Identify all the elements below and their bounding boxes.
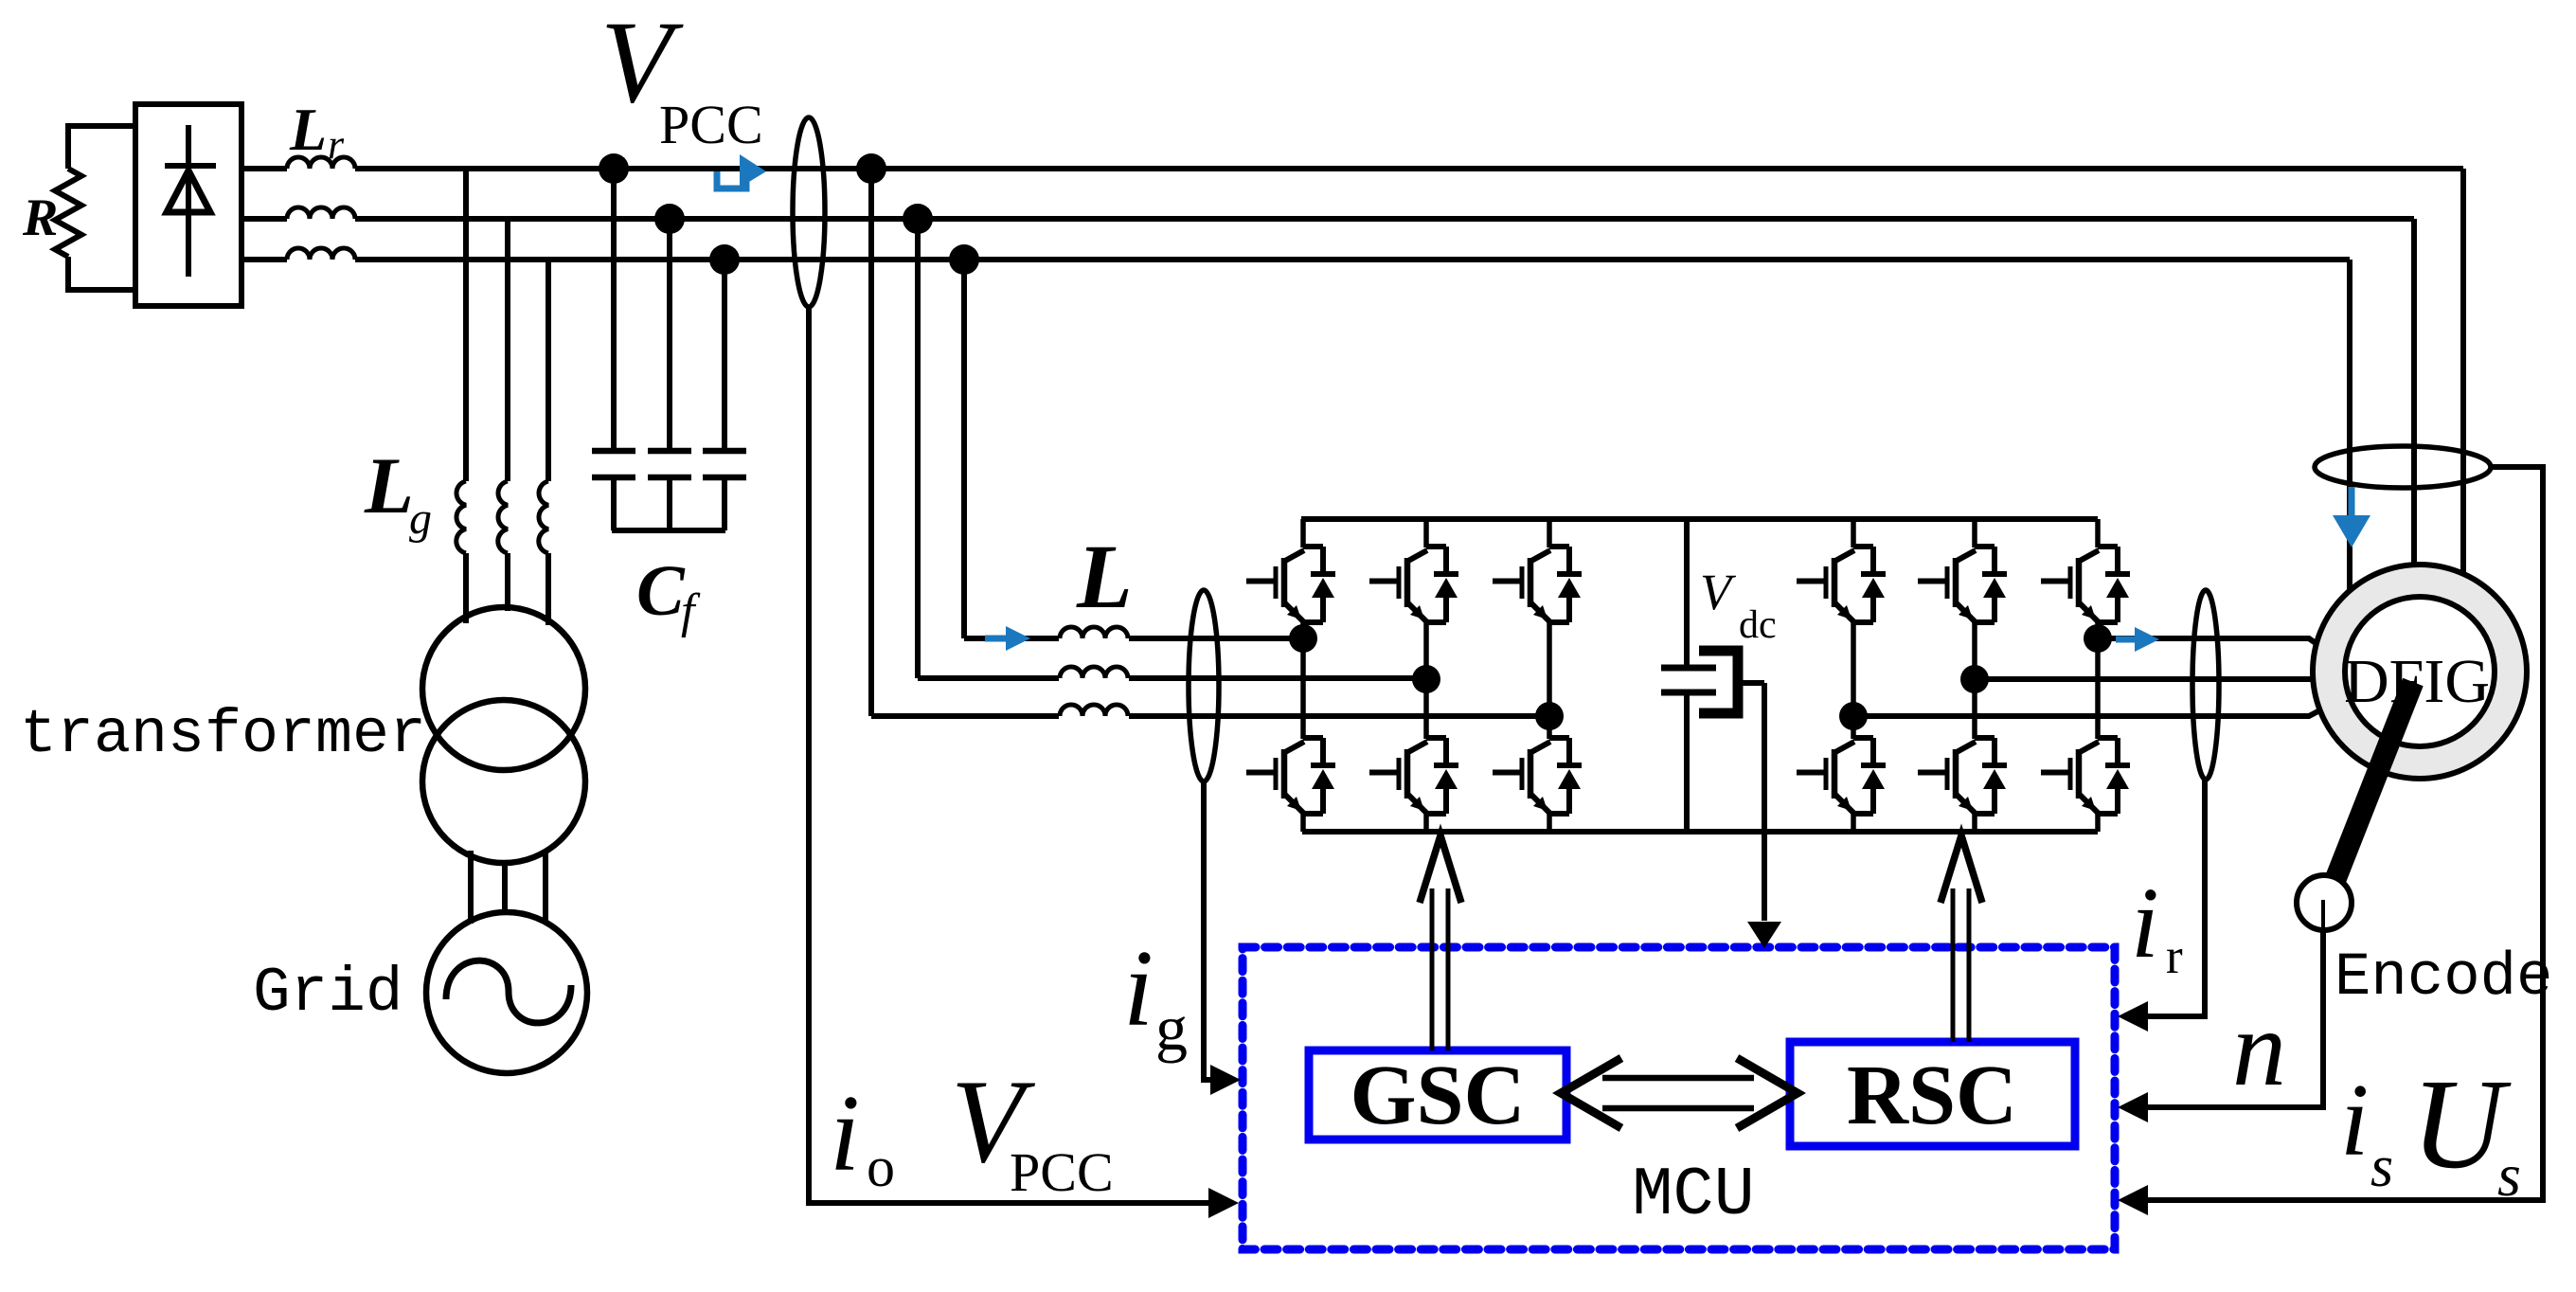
svg-text:g: g	[409, 493, 432, 544]
svg-text:dc: dc	[1739, 603, 1777, 647]
svg-text:g: g	[1155, 992, 1188, 1064]
svg-text:s: s	[2370, 1135, 2393, 1199]
svg-text:RSC: RSC	[1847, 1049, 2017, 1142]
svg-text:GSC: GSC	[1350, 1049, 1525, 1142]
svg-text:C: C	[636, 551, 686, 631]
svg-text:i: i	[830, 1073, 860, 1193]
svg-text:L: L	[364, 441, 414, 530]
svg-text:Grid: Grid	[253, 958, 402, 1029]
svg-text:n: n	[2232, 988, 2286, 1108]
svg-text:s: s	[2497, 1141, 2521, 1209]
svg-text:r: r	[328, 121, 345, 168]
svg-text:o: o	[867, 1136, 895, 1198]
svg-text:PCC: PCC	[659, 94, 763, 155]
svg-text:V: V	[1700, 564, 1737, 620]
svg-text:transformer: transformer	[20, 700, 426, 770]
svg-text:i: i	[2131, 868, 2159, 979]
svg-text:i: i	[1123, 928, 1154, 1049]
svg-text:PCC: PCC	[1010, 1141, 1114, 1203]
svg-text:i: i	[2340, 1063, 2369, 1177]
svg-text:Encode: Encode	[2334, 944, 2552, 1013]
svg-text:r: r	[2166, 929, 2183, 984]
svg-text:R: R	[22, 188, 58, 247]
svg-text:L: L	[289, 96, 327, 163]
svg-text:f: f	[681, 584, 701, 638]
svg-text:L: L	[1076, 526, 1133, 627]
svg-text:MCU: MCU	[1632, 1157, 1755, 1234]
svg-text:DFIG: DFIG	[2344, 647, 2490, 716]
